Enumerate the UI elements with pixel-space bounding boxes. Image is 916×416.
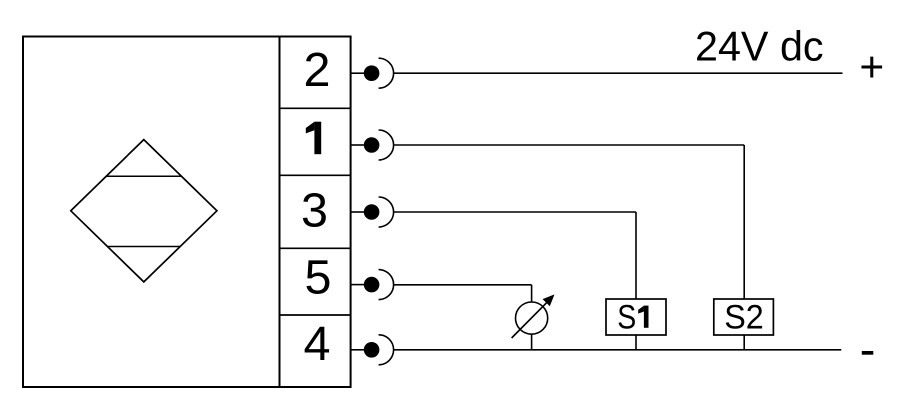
svg-text:4: 4: [304, 317, 331, 371]
filter diamond symbol: [71, 140, 217, 282]
pin number 5: [305, 251, 332, 305]
minus terminal: [862, 351, 874, 355]
terminal box separator 2/1: [280, 107, 351, 109]
wire S1 to 0V rail: [635, 335, 637, 350]
svg-text:3: 3: [301, 184, 328, 238]
label 24V dc: [695, 23, 824, 69]
wire pin5 down to meter: [531, 285, 533, 302]
device outline (valve/filter unit body): [23, 37, 351, 388]
wire meter to 0V rail: [531, 334, 533, 350]
pin number 3: [301, 184, 328, 238]
wire pin2 to +24V: [394, 72, 843, 74]
wire pin1 down to S2: [743, 145, 745, 299]
terminal strip divider: [279, 37, 281, 388]
connector contact pin 4: [351, 335, 394, 365]
wire S2 to 0V rail: [743, 335, 745, 350]
terminal box separator 1/3: [280, 174, 351, 176]
wire pin3 down to S1: [635, 212, 637, 299]
plus terminal: [859, 45, 884, 92]
wire pin4 0V rail: [394, 349, 842, 351]
svg-text:S2: S2: [724, 298, 764, 336]
connector contact pin 3: [351, 197, 394, 227]
terminal box separator 3/5: [280, 247, 351, 249]
svg-text:2: 2: [304, 43, 331, 97]
connector contact pin 2: [351, 58, 394, 88]
svg-text:S: S: [617, 298, 636, 336]
switch S1: [606, 298, 666, 336]
connector contact pin 5: [351, 270, 394, 300]
pin number 2: [304, 43, 331, 97]
svg-text:5: 5: [305, 251, 332, 305]
connector contact pin 1: [351, 130, 394, 160]
wire pin1 horizontal: [394, 144, 745, 146]
svg-text:24V dc: 24V dc: [695, 23, 824, 69]
svg-text:+: +: [859, 45, 884, 92]
meter M1 adjustable indicator: [512, 294, 555, 338]
switch S2: [714, 298, 774, 336]
terminal box separator 5/4: [280, 314, 351, 316]
pin number 1: [306, 122, 321, 155]
wire pin3 horizontal: [394, 211, 636, 213]
wire pin5 horizontal: [394, 284, 532, 286]
pin number 4: [304, 317, 331, 371]
